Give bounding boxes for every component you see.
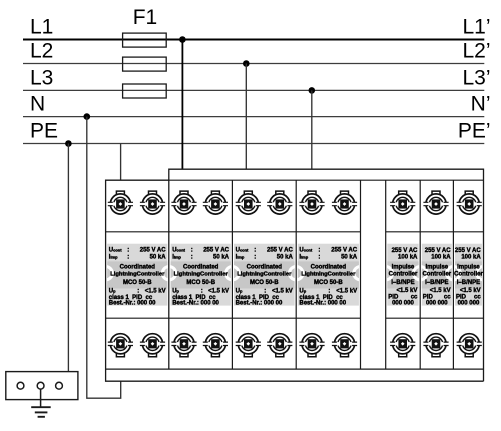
svg-text:N’: N’ xyxy=(471,93,491,116)
module M5 bottom terminal xyxy=(390,334,415,357)
enclosure box B (main SPD unit) xyxy=(169,169,484,381)
module M1 top terminals xyxy=(108,191,133,214)
svg-text:Coordinated: Coordinated xyxy=(311,265,347,271)
module M2 bottom terminals xyxy=(171,334,196,357)
svg-text:<1.5 kV: <1.5 kV xyxy=(430,288,451,294)
svg-text:Best.-Nr.: 000 00: Best.-Nr.: 000 00 xyxy=(299,301,346,307)
module M6 label plate xyxy=(422,244,452,306)
svg-text:N: N xyxy=(30,93,45,116)
wire bus line L1 xyxy=(23,39,484,41)
wire bus line PE xyxy=(23,143,484,145)
module M6 top terminal xyxy=(423,191,448,214)
svg-text:L1: L1 xyxy=(30,16,53,39)
earth busbar (equipotential bonding bar) xyxy=(6,372,78,400)
svg-text:MCO 50-B: MCO 50-B xyxy=(123,280,152,286)
module M2 label plate xyxy=(171,244,231,306)
module M1 label text (MCO 50-B) xyxy=(109,247,166,306)
svg-text:PE: PE xyxy=(30,120,58,143)
svg-text:Coordinated: Coordinated xyxy=(247,265,283,271)
svg-text:000 000: 000 000 xyxy=(426,301,448,307)
svg-text:<1.5 kV: <1.5 kV xyxy=(460,288,481,294)
svg-text:Controller: Controller xyxy=(422,271,451,277)
wire L1 to module M2 top xyxy=(181,40,183,170)
wire L2 to module M3 top xyxy=(245,64,247,170)
module M6 bottom terminal xyxy=(423,334,448,357)
svg-text:255 V AC: 255 V AC xyxy=(392,248,418,254)
module M7 label plate xyxy=(455,244,482,306)
wire bus line N xyxy=(23,116,484,118)
svg-text:Impulse: Impulse xyxy=(457,265,480,271)
wire bus line L3 xyxy=(23,89,484,91)
junction dot on L3 xyxy=(309,87,316,94)
svg-text:Controller: Controller xyxy=(389,271,418,277)
bottom rail line xyxy=(106,368,484,370)
wire L3 to module M4 top xyxy=(311,90,313,169)
svg-text:LightningController: LightningController xyxy=(110,271,165,277)
screw-area divider lines (horizontal) xyxy=(106,232,484,318)
module M3 label plate xyxy=(234,244,295,306)
fuse F1 element 3 (L3) xyxy=(123,84,167,98)
module M6 label text (NPE) xyxy=(422,248,451,307)
wire bus line L2 xyxy=(23,63,484,65)
svg-text:MCO 50-B: MCO 50-B xyxy=(314,280,343,286)
svg-text:L2: L2 xyxy=(30,40,53,63)
svg-text:<1.5 kV: <1.5 kV xyxy=(336,289,357,295)
svg-text:<1.5 kV: <1.5 kV xyxy=(397,288,418,294)
svg-text:<1.5 kV: <1.5 kV xyxy=(208,289,229,295)
svg-text:<1.5 kV: <1.5 kV xyxy=(145,289,166,295)
svg-text:Best.-Nr.: 000 00: Best.-Nr.: 000 00 xyxy=(236,301,283,307)
svg-text:100 kA: 100 kA xyxy=(398,254,418,260)
module M3 bottom terminals xyxy=(236,334,261,357)
svg-text:MCO 50-B: MCO 50-B xyxy=(186,280,215,286)
svg-text:Best.-Nr.: 000 00: Best.-Nr.: 000 00 xyxy=(172,301,219,307)
fuse F1 element 2 (L2) xyxy=(123,57,167,71)
module M1 label plate xyxy=(107,244,167,306)
svg-text:000 000: 000 000 xyxy=(458,301,480,307)
module M4 top terminals xyxy=(299,191,324,214)
module M3 top terminals xyxy=(236,191,261,214)
module M7 label text (NPE) xyxy=(454,248,483,307)
svg-text:L2’: L2’ xyxy=(462,40,490,63)
junction dot on N xyxy=(84,113,91,120)
wire PE to module M1 top xyxy=(120,144,122,181)
busbar hole 2 xyxy=(37,382,44,389)
module M5 label text (NPE) xyxy=(388,248,418,307)
svg-text:LightningController: LightningController xyxy=(237,271,292,277)
module M4 bottom terminals xyxy=(299,334,324,357)
svg-text:LightningController: LightningController xyxy=(174,271,229,277)
svg-text:Impulse: Impulse xyxy=(425,265,448,271)
module M2 label text (MCO 50-B) xyxy=(172,247,229,306)
module divider lines (vertical) xyxy=(232,180,453,369)
svg-text:255 V AC: 255 V AC xyxy=(455,248,481,254)
fuse F1 element 1 (L1) xyxy=(123,33,167,47)
svg-text:I–B/NPE: I–B/NPE xyxy=(425,280,448,286)
junction dot on PE xyxy=(65,140,72,147)
svg-text:I–B/NPE: I–B/NPE xyxy=(391,280,414,286)
svg-text:255 V AC: 255 V AC xyxy=(425,248,451,254)
svg-text:Controller: Controller xyxy=(454,271,483,277)
module M3 label text (MCO 50-B) xyxy=(236,247,294,306)
module M7 top terminal xyxy=(457,191,482,214)
svg-text:PE’: PE’ xyxy=(458,120,491,143)
ground symbol xyxy=(31,407,51,417)
box B top rail line xyxy=(169,179,484,181)
wire busbar to ground xyxy=(40,389,42,407)
module M5 top terminal xyxy=(390,191,415,214)
module M1 bottom terminals xyxy=(108,334,133,357)
svg-text:Best.-Nr.: 000 00: Best.-Nr.: 000 00 xyxy=(109,301,156,307)
logo ring watermarks xyxy=(99,267,490,280)
svg-text:L3: L3 xyxy=(30,66,53,89)
junction dot on L2 xyxy=(243,60,250,67)
junction dot on L1 xyxy=(179,36,186,43)
enclosure box A (module M1 unit) xyxy=(106,180,484,381)
svg-text:<1.5 kV: <1.5 kV xyxy=(272,289,293,295)
busbar hole 1 xyxy=(17,382,24,389)
module M5 label plate xyxy=(387,244,418,306)
svg-text:LightningController: LightningController xyxy=(301,271,356,277)
svg-text:Impulse: Impulse xyxy=(392,265,415,271)
svg-text:000 000: 000 000 xyxy=(392,301,414,307)
svg-text:I–B/NPE: I–B/NPE xyxy=(457,280,480,286)
module M7 bottom terminal xyxy=(457,334,482,357)
svg-text:L1’: L1’ xyxy=(462,16,490,39)
svg-text:F1: F1 xyxy=(133,6,158,29)
svg-text:100 kA: 100 kA xyxy=(461,254,481,260)
wire PE to earth busbar xyxy=(67,144,69,372)
wire N to module M1 bottom (L-shaped) xyxy=(87,117,121,399)
svg-text:Coordinated: Coordinated xyxy=(183,265,219,271)
module M4 label plate xyxy=(298,244,359,306)
module M2 top terminals xyxy=(171,191,196,214)
svg-text:100 kA: 100 kA xyxy=(431,254,451,260)
svg-text:Coordinated: Coordinated xyxy=(120,265,156,271)
busbar hole 3 xyxy=(56,382,63,389)
svg-text:MCO 50-B: MCO 50-B xyxy=(250,280,279,286)
module M4 label text (MCO 50-B) xyxy=(299,247,357,306)
svg-text:L3’: L3’ xyxy=(462,66,490,89)
